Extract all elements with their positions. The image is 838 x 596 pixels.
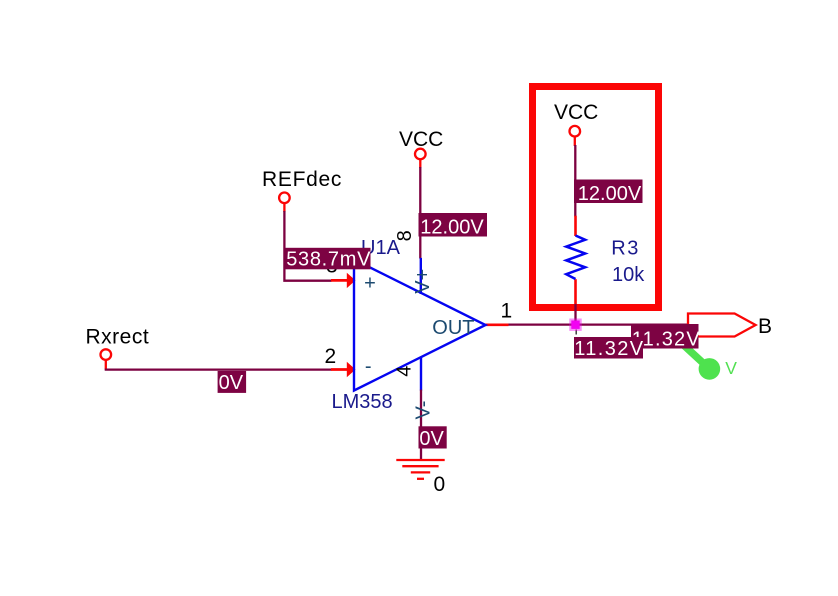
bias label 538.7mV [285, 248, 370, 269]
bias label 12.00V (left) [419, 213, 488, 237]
svg-text:1: 1 [501, 300, 513, 323]
svg-text:10k: 10k [612, 264, 645, 286]
op-amp U1A triangle [354, 260, 486, 391]
bias label 11.32V (at node) [574, 337, 643, 359]
bias label 0V (on Rxrect wire) [218, 371, 247, 393]
svg-text:V+: V+ [412, 269, 434, 294]
voltage probe marker V (green) [683, 345, 709, 369]
svg-text:Rxrect: Rxrect [86, 326, 150, 349]
svg-text:V-: V- [413, 401, 435, 420]
svg-text:2: 2 [325, 345, 337, 368]
op-amp U1A output pin [486, 323, 509, 326]
svg-text:12.00V: 12.00V [578, 183, 642, 205]
wire Rxrect to inverting input [105, 368, 332, 370]
svg-text:0: 0 [434, 473, 446, 496]
svg-text:VCC: VCC [399, 128, 443, 151]
wire output node to off-page connector B [507, 323, 688, 325]
svg-text:11.32V: 11.32V [574, 338, 644, 360]
resistor R3 body (blue zigzag) [566, 236, 585, 280]
op-amp inverting input pin with arrow [331, 368, 348, 371]
svg-text:VCC: VCC [554, 101, 598, 124]
svg-text:8: 8 [394, 230, 416, 241]
bias label 12.00V (right, inside red box) [574, 180, 643, 204]
bias label 11.32V (at connector pin) [631, 324, 699, 349]
wire REFdec to non-inverting input [284, 211, 331, 281]
svg-text:538.7mV: 538.7mV [286, 249, 371, 271]
highlight box (red selection rectangle around VCC/R3) [533, 87, 659, 308]
svg-text:-: - [365, 355, 372, 377]
op-amp non-inverting input pin with arrow [331, 279, 348, 282]
svg-text:B: B [758, 315, 772, 338]
junction attachment tick [575, 330, 577, 335]
resistor R3 pins (red) [574, 216, 577, 236]
op-amp V+ power pin (blue) [420, 258, 422, 294]
svg-text:12.00V: 12.00V [420, 217, 484, 239]
svg-text:V: V [725, 358, 737, 378]
off-page connector B [688, 314, 756, 337]
wire VCC to R3 [574, 145, 576, 217]
ground symbol 0 [396, 459, 444, 461]
svg-text:+: + [364, 273, 376, 295]
svg-text:OUT: OUT [432, 317, 474, 339]
wire R3 to output node [574, 304, 576, 325]
op-amp V- power pin (blue) [420, 357, 422, 391]
wire op-amp V- to ground [420, 390, 422, 460]
bias label 0V (on ground wire) [419, 426, 447, 448]
svg-text:REFdec: REFdec [262, 168, 342, 191]
svg-text:0V: 0V [219, 372, 244, 394]
wire VCC to op-amp V+ [419, 167, 421, 259]
svg-text:R3: R3 [611, 238, 640, 260]
svg-text:LM358: LM358 [332, 391, 393, 413]
svg-text:4: 4 [393, 366, 415, 377]
wire junction dot [569, 319, 581, 331]
svg-text:0V: 0V [419, 428, 444, 450]
